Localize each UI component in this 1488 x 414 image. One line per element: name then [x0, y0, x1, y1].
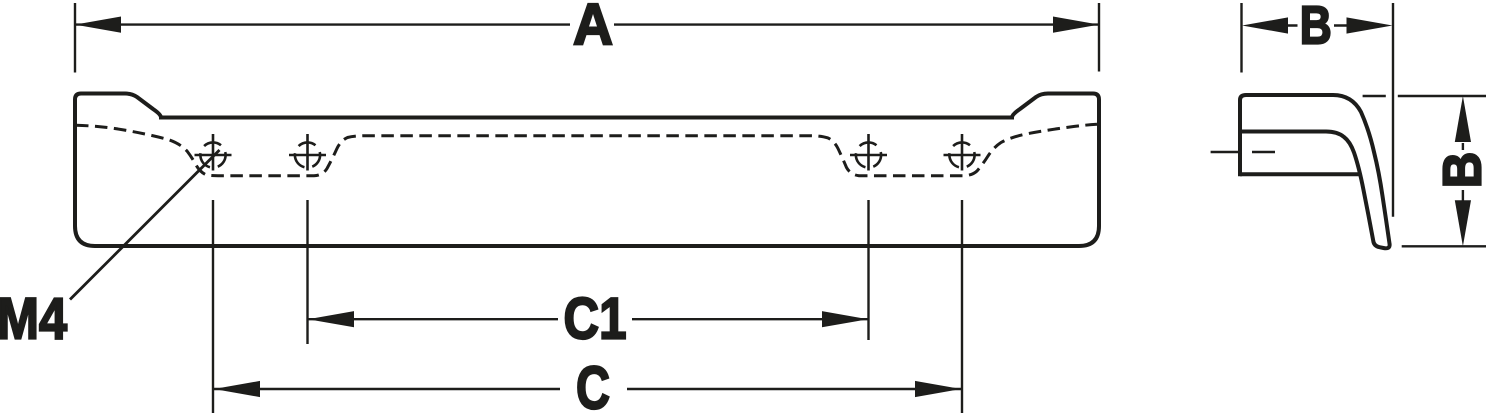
dimension B left arrowhead [1242, 17, 1288, 33]
hole 2 vertical centerline [306, 134, 309, 171]
vertical B up arrowhead [1455, 96, 1471, 142]
hole 4 (dashed circle) [949, 142, 974, 167]
svg-text:M4: M4 [0, 286, 67, 351]
svg-text:A: A [573, 0, 613, 58]
extension line below hole 4 [961, 200, 963, 413]
vertical B dimension line [1462, 143, 1464, 201]
hole 1 vertical centerline [212, 134, 215, 171]
hole 1 horizontal centerline [195, 154, 232, 157]
hole 1 (dashed circle) [200, 142, 225, 167]
dimension C1 left arrowhead [308, 311, 354, 327]
dimension B right extension line [1392, 3, 1394, 217]
dimension A left arrowhead [75, 17, 121, 33]
hole 2 (dashed circle) [295, 142, 320, 167]
dimension B left extension line [1240, 3, 1242, 73]
side view centerline (dashed) [1211, 151, 1275, 154]
svg-text:B: B [1433, 152, 1488, 189]
svg-text:B: B [1300, 0, 1332, 56]
svg-text:C: C [576, 354, 610, 414]
hole 4 horizontal centerline [944, 154, 981, 157]
side view bottom edge [1240, 172, 1359, 176]
dimension C1 right arrowhead [822, 311, 868, 327]
extension line below hole 3 [867, 200, 869, 340]
dimension A left extension line [74, 3, 76, 73]
hole 3 (dashed circle) [856, 142, 881, 167]
handle front outline [75, 94, 1099, 247]
hole 2 horizontal centerline [289, 154, 326, 157]
dimension C1 line [308, 318, 868, 320]
dimension A right arrowhead [1053, 17, 1099, 33]
M4 leader line [70, 150, 220, 300]
vertical B top extension line [1363, 95, 1486, 97]
svg-text:C1: C1 [564, 287, 627, 352]
extension line below hole 2 [306, 200, 308, 344]
extension line below hole 1 [212, 200, 214, 413]
dimension C right arrowhead [915, 381, 961, 397]
hidden contour dashed line [76, 124, 1097, 176]
dimension C left arrowhead [214, 381, 260, 397]
dimension B right arrowhead [1347, 17, 1393, 33]
vertical B bottom extension line [1402, 245, 1486, 247]
dimension A right extension line [1098, 3, 1100, 72]
hole 3 horizontal centerline [850, 154, 887, 157]
dimension C line [214, 388, 961, 390]
hole 4 vertical centerline [961, 134, 964, 171]
dimension B line [1287, 24, 1347, 26]
vertical B down arrowhead [1455, 200, 1471, 246]
side view profile outline [1240, 95, 1390, 248]
hole 3 vertical centerline [867, 134, 870, 171]
dimension A line [75, 23, 1099, 25]
